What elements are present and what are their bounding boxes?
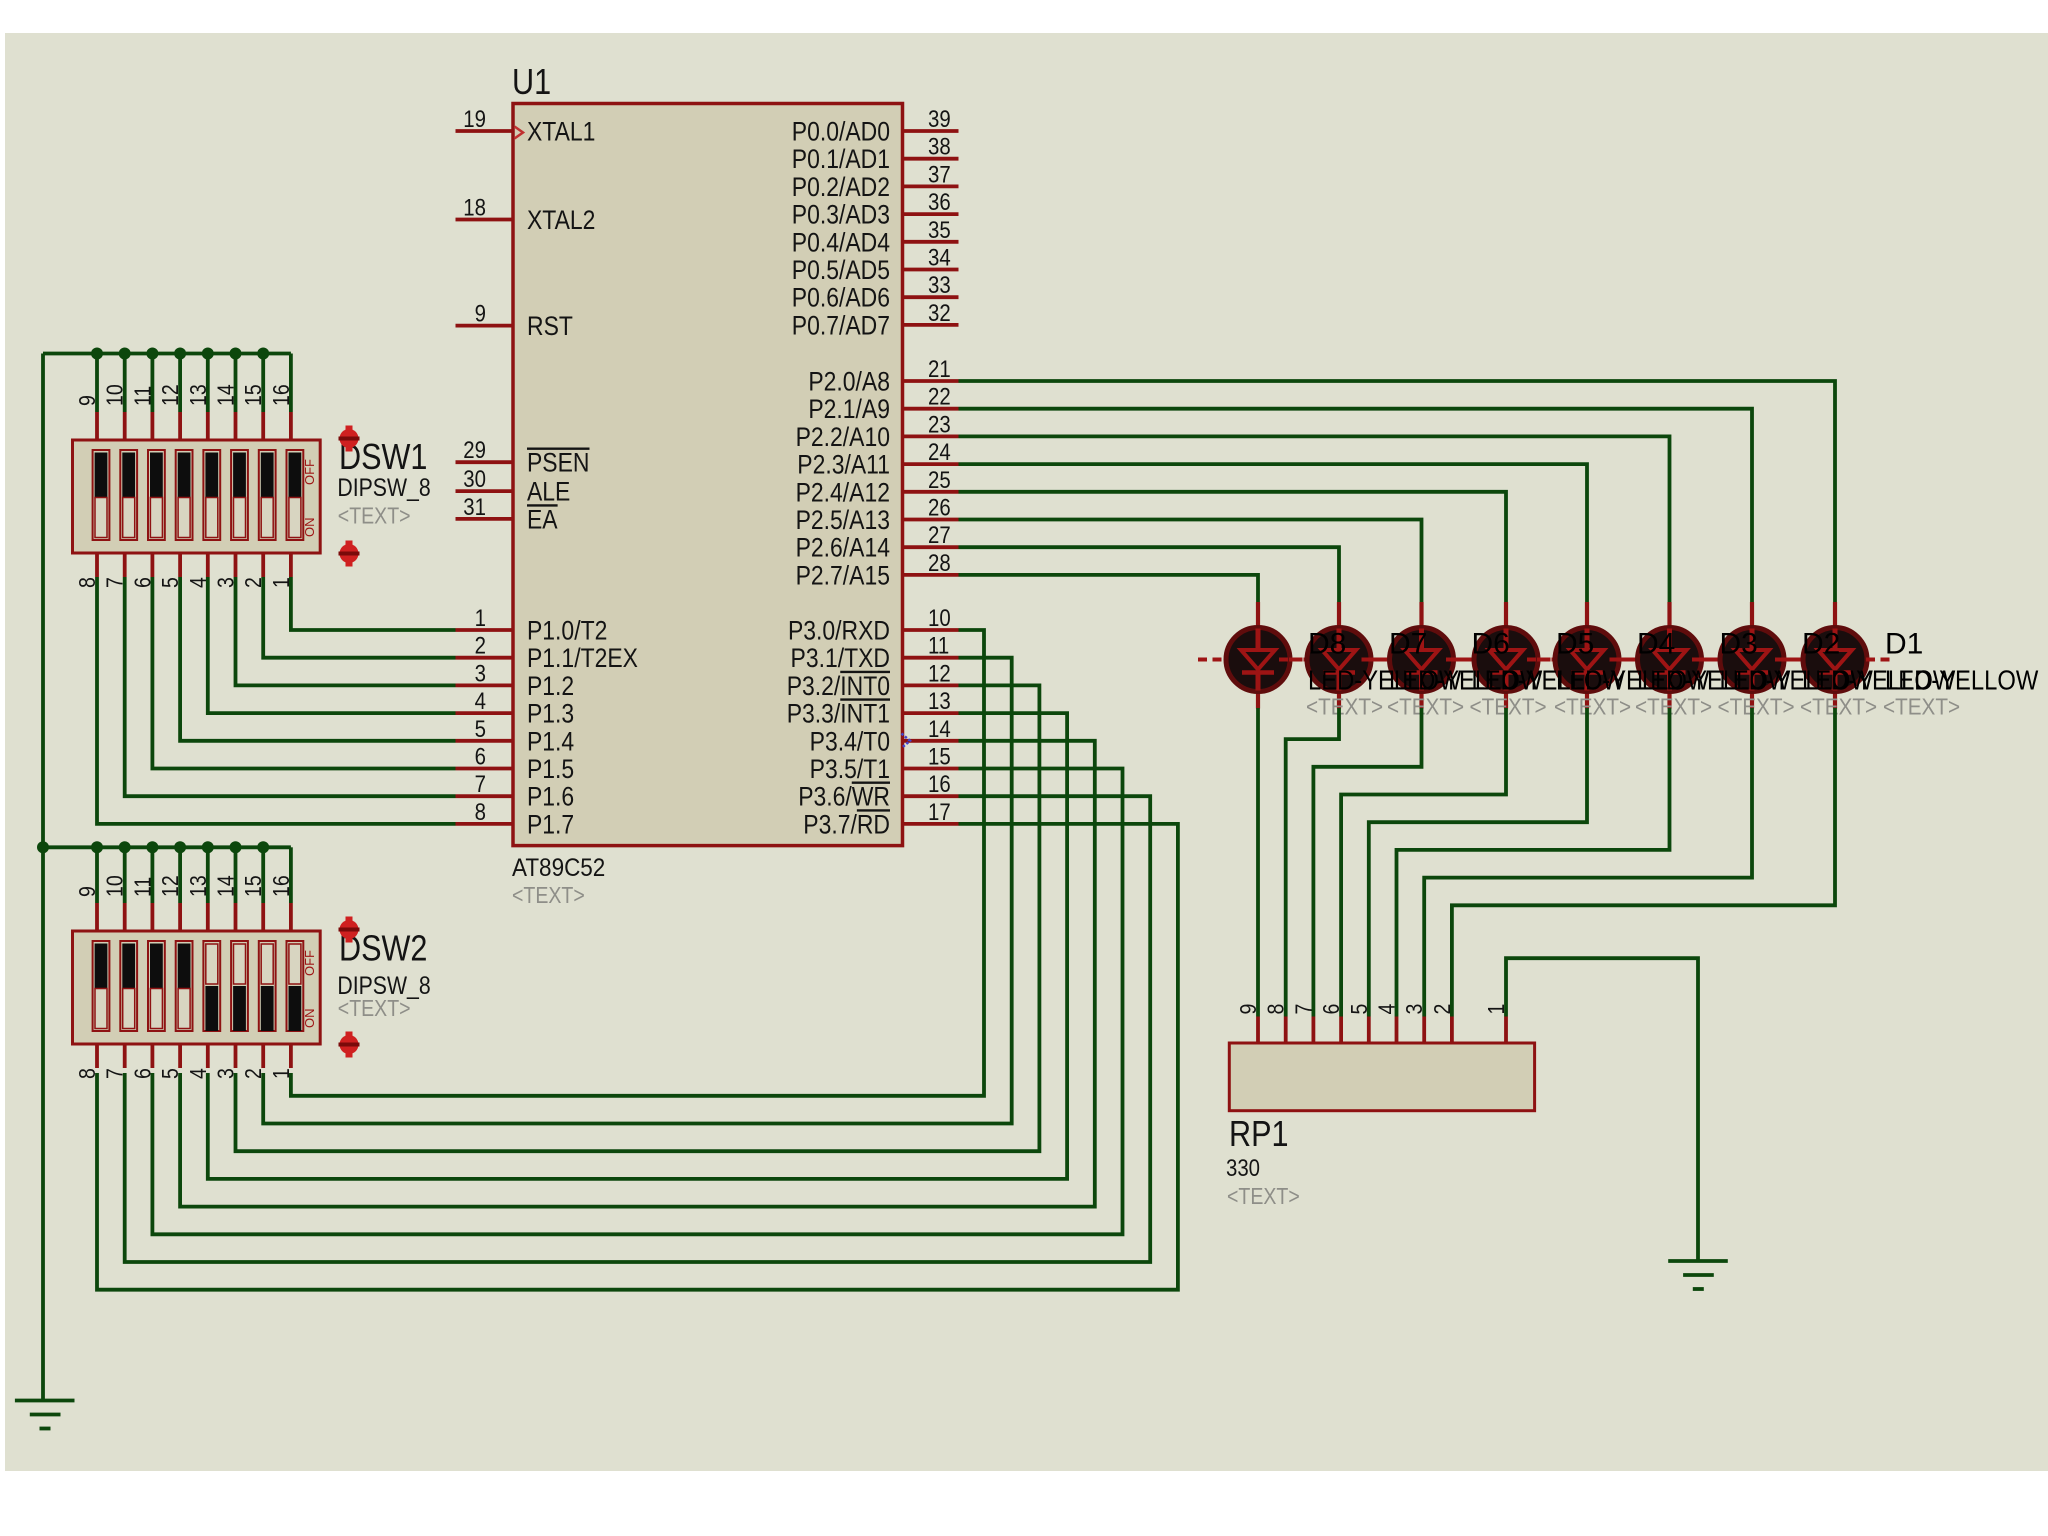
DSW1 pin 16 stub [289, 412, 293, 440]
junction DSW1 bus node 13 [202, 348, 214, 360]
svg-text:P1.4: P1.4 [527, 727, 574, 757]
wire DSW2 pin 4 to U1 P3.3 [208, 713, 1067, 1179]
svg-text:D5: D5 [1556, 628, 1594, 661]
DSW2 origin marker (bottom) [339, 1032, 360, 1058]
U1 pin 28 stub (P2.7) [903, 573, 959, 577]
U1 pin 16 stub (P3.6) [903, 794, 959, 798]
wire DSW1 top pin 11 drop [150, 354, 154, 413]
RP1 pin 9 stub [1256, 1017, 1260, 1044]
svg-text:OFF: OFF [302, 950, 317, 976]
svg-text:14: 14 [928, 715, 951, 742]
svg-text:14: 14 [213, 875, 239, 897]
LED D4 (yellow LED symbol) [1527, 602, 1647, 709]
U1 pin 3 stub (P1.2) [456, 684, 514, 688]
LED D7 (yellow LED symbol) [1279, 602, 1399, 709]
wire DSW1 pin 8 to U1 P1.7 [97, 577, 456, 824]
svg-text:8: 8 [1263, 1004, 1289, 1015]
DSW1 pin 15 stub [261, 412, 265, 440]
DSW2 pin 4 stub (bottom) [206, 1044, 210, 1068]
svg-text:P0.6/AD6: P0.6/AD6 [792, 283, 890, 313]
svg-text:P0.1/AD1: P0.1/AD1 [792, 144, 890, 174]
svg-text:<TEXT>: <TEXT> [1306, 693, 1383, 719]
wire DSW2 top pin 15 drop [261, 847, 265, 903]
DSW2 pin 2 stub (bottom) [261, 1044, 265, 1068]
wire U1 P2.0 to LED D1 anode [959, 381, 1836, 602]
svg-text:PSEN: PSEN [527, 448, 589, 478]
DSW2 switch element 1 (ON) [93, 941, 110, 1031]
wire DSW1 top pin 16 drop [289, 354, 293, 413]
svg-text:<TEXT>: <TEXT> [338, 503, 411, 529]
DSW1 pin 2 stub (bottom) [261, 553, 265, 577]
DSW1 switch element 7 (ON) [259, 450, 276, 540]
wire LED D4 cathode to RP1 pin 5 [1369, 708, 1587, 1017]
IC U1 body (AT89C52 microcontroller) [513, 104, 903, 846]
svg-text:P1.7: P1.7 [527, 810, 574, 840]
DSW1 switch element 2 (ON) [120, 450, 137, 540]
svg-text:P3.2/INT0: P3.2/INT0 [787, 671, 890, 701]
junction DSW2 bus node 15 [257, 841, 269, 853]
svg-text:36: 36 [928, 189, 951, 216]
junction DSW1 bus node 12 [174, 348, 186, 360]
svg-text:8: 8 [475, 798, 486, 825]
svg-text:10: 10 [102, 875, 128, 897]
DSW2 switch element 3 (ON) [148, 941, 165, 1031]
svg-text:21: 21 [928, 355, 951, 382]
wire DSW2 top bus [43, 845, 291, 849]
wire DSW2 top pin 9 drop [95, 847, 99, 903]
svg-text:13: 13 [185, 384, 211, 406]
junction DSW1 bus node 11 [146, 348, 158, 360]
U1 left pin 9 stub [456, 324, 514, 328]
DSW2 pin 1 stub (bottom) [289, 1044, 293, 1068]
svg-text:2: 2 [475, 632, 486, 659]
DSW2 pin 14 stub [234, 903, 238, 931]
svg-text:P1.0/T2: P1.0/T2 [527, 616, 607, 646]
DSW1 switch element 5 (ON) [203, 450, 220, 540]
DSW2 pin 6 stub (bottom) [150, 1044, 154, 1068]
DSW1 pin 9 stub [95, 412, 99, 440]
U1 left pin 19 stub [456, 129, 514, 133]
U1 pin 22 stub (P2.1) [903, 407, 959, 411]
wire DSW1 top pin 10 drop [123, 354, 127, 413]
svg-text:P2.4/A12: P2.4/A12 [796, 478, 890, 508]
DSW1 origin marker (top) [339, 426, 360, 452]
svg-text:AT89C52: AT89C52 [512, 854, 605, 882]
RP1 pin 1 stub [1504, 1017, 1508, 1044]
wire DSW2 top pin 10 drop [123, 847, 127, 903]
svg-text:P3.3/INT1: P3.3/INT1 [787, 699, 890, 729]
svg-text:D8: D8 [1308, 628, 1346, 661]
svg-text:P0.3/AD3: P0.3/AD3 [792, 200, 890, 230]
junction DSW2 bus node 12 [174, 841, 186, 853]
RP1 pin 5 stub [1367, 1017, 1371, 1044]
DSW1 pin 12 stub [178, 412, 182, 440]
DSW2 pin 13 stub [206, 903, 210, 931]
wire U1 P2.2 to LED D3 anode [959, 436, 1670, 602]
wire DSW1 pin 6 to U1 P1.5 [152, 577, 455, 769]
svg-text:XTAL2: XTAL2 [527, 205, 595, 235]
U1 pin 23 stub (P2.2) [903, 434, 959, 438]
wire LED D1 cathode to RP1 pin 2 [1452, 708, 1835, 1017]
svg-text:16: 16 [928, 771, 951, 798]
svg-text:P3.4/T0: P3.4/T0 [810, 727, 890, 757]
DSW2 switch element 5 (OFF) [203, 941, 220, 1031]
dip switch DSW1 body [73, 440, 321, 553]
svg-text:DIPSW_8: DIPSW_8 [337, 473, 430, 501]
svg-text:<TEXT>: <TEXT> [1635, 693, 1712, 719]
svg-text:9: 9 [75, 886, 101, 897]
svg-text:13: 13 [185, 875, 211, 897]
dip switch DSW2 body [73, 931, 321, 1044]
DSW2 pin 10 stub [123, 903, 127, 931]
svg-text:330: 330 [1226, 1154, 1260, 1181]
svg-text:P2.1/A9: P2.1/A9 [808, 394, 890, 424]
DSW1 switch element 8 (ON) [287, 450, 304, 540]
junction DSW2 bus node 14 [230, 841, 242, 853]
svg-text:P2.7/A15: P2.7/A15 [796, 561, 890, 591]
DSW2 switch element 2 (ON) [120, 941, 137, 1031]
U1 pin 38 stub (P0.1) [903, 157, 959, 161]
svg-text:<TEXT>: <TEXT> [338, 996, 411, 1022]
svg-text:P1.1/T2EX: P1.1/T2EX [527, 643, 638, 673]
RP1 pin 4 stub [1395, 1017, 1399, 1044]
svg-text:26: 26 [928, 494, 951, 521]
wire U1 P2.7 to LED D8 anode [959, 575, 1259, 602]
svg-text:16: 16 [268, 384, 294, 406]
junction DSW1 bus node 10 [119, 348, 131, 360]
svg-text:9: 9 [75, 395, 101, 406]
U1 pin 26 stub (P2.5) [903, 518, 959, 522]
svg-text:5: 5 [475, 715, 486, 742]
svg-text:12: 12 [928, 660, 951, 687]
RP1 pin 8 stub [1284, 1017, 1288, 1044]
U1 pin 13 stub (P3.3) [903, 711, 959, 715]
DSW1 pin 7 stub (bottom) [123, 553, 127, 577]
svg-text:P0.5/AD5: P0.5/AD5 [792, 255, 890, 285]
U1 pin 10 stub (P3.0) [903, 628, 959, 632]
svg-text:6: 6 [1319, 1004, 1345, 1015]
svg-text:<TEXT>: <TEXT> [1554, 693, 1631, 719]
wire DSW2 top pin 12 drop [178, 847, 182, 903]
DSW2 origin marker (top) [339, 917, 360, 943]
DSW2 pin 16 stub [289, 903, 293, 931]
wire U1 P2.5 to LED D6 anode [959, 520, 1422, 603]
U1 pin 7 stub (P1.6) [456, 794, 514, 798]
junction DSW2 bus node 10 [119, 841, 131, 853]
svg-text:D3: D3 [1720, 628, 1758, 661]
wire DSW1 top pin 9 drop [95, 354, 99, 413]
svg-text:3: 3 [475, 660, 486, 687]
U1 left pin 31 stub [456, 517, 514, 521]
svg-text:7: 7 [1291, 1004, 1317, 1015]
resistor pack RP1 body [1229, 1043, 1534, 1111]
RP1 pin 7 stub [1312, 1017, 1316, 1044]
svg-text:3: 3 [1402, 1004, 1428, 1015]
wire DSW2 pin 5 to U1 P3.4 [180, 741, 1095, 1207]
U1 pin 37 stub (P0.2) [903, 184, 959, 188]
svg-text:OFF: OFF [302, 459, 317, 485]
svg-text:12: 12 [158, 875, 184, 897]
DSW2 pin 8 stub (bottom) [95, 1044, 99, 1068]
svg-text:D1: D1 [1885, 628, 1923, 661]
wire DSW1 pin 1 to U1 P1.0 [291, 577, 456, 630]
svg-text:9: 9 [1236, 1004, 1262, 1015]
svg-text:P0.0/AD0: P0.0/AD0 [792, 117, 890, 147]
U1 pin 12 stub (P3.2) [903, 684, 959, 688]
wire LED D6 cathode to RP1 pin 7 [1313, 708, 1421, 1017]
svg-text:<TEXT>: <TEXT> [512, 883, 585, 909]
svg-text:ALE: ALE [527, 477, 570, 507]
svg-text:<TEXT>: <TEXT> [1883, 693, 1960, 719]
wire DSW2 top pin 11 drop [150, 847, 154, 903]
wire DSW1 top pin 13 drop [206, 354, 210, 413]
U1 pin 32 stub (P0.7) [903, 323, 959, 327]
svg-text:P2.5/A13: P2.5/A13 [796, 505, 890, 535]
U1 pin 21 stub (P2.0) [903, 379, 959, 383]
wire LED D5 cathode to RP1 pin 6 [1341, 708, 1506, 1017]
svg-text:P2.6/A14: P2.6/A14 [796, 533, 890, 563]
DSW1 pin 6 stub (bottom) [150, 553, 154, 577]
svg-text:P3.0/RXD: P3.0/RXD [788, 616, 890, 646]
RP1 pin 2 stub [1450, 1017, 1454, 1044]
junction DSW2 bus node 13 [202, 841, 214, 853]
wire ground rail vertical (left) [41, 354, 45, 1401]
wire DSW2 top pin 13 drop [206, 847, 210, 903]
DSW2 pin 11 stub [150, 903, 154, 931]
svg-text:<TEXT>: <TEXT> [1227, 1184, 1300, 1210]
svg-text:D6: D6 [1472, 628, 1510, 661]
svg-text:15: 15 [928, 743, 951, 770]
svg-text:1: 1 [475, 604, 486, 631]
svg-text:15: 15 [241, 384, 267, 406]
svg-text:38: 38 [928, 133, 951, 160]
DSW2 switch element 7 (OFF) [259, 941, 276, 1031]
wire DSW1 pin 4 to U1 P1.3 [208, 577, 456, 713]
svg-text:P2.0/A8: P2.0/A8 [808, 367, 890, 397]
DSW1 origin marker (bottom) [339, 541, 360, 567]
U1 pin 36 stub (P0.3) [903, 212, 959, 216]
U1 pin 33 stub (P0.6) [903, 295, 959, 299]
svg-text:28: 28 [928, 549, 951, 576]
wire DSW1 pin 3 to U1 P1.2 [236, 577, 456, 685]
svg-text:14: 14 [213, 384, 239, 406]
svg-text:39: 39 [928, 105, 951, 132]
DSW2 pin 7 stub (bottom) [123, 1044, 127, 1068]
RP1 pin 6 stub [1339, 1017, 1343, 1044]
U1 pin 24 stub (P2.3) [903, 462, 959, 466]
svg-text:11: 11 [130, 386, 156, 406]
svg-text:4: 4 [1374, 1004, 1400, 1015]
svg-text:30: 30 [463, 466, 486, 493]
svg-text:P1.5: P1.5 [527, 754, 574, 784]
svg-text:23: 23 [928, 411, 951, 438]
svg-text:10: 10 [928, 604, 951, 631]
svg-text:33: 33 [928, 272, 951, 299]
DSW1 pin 14 stub [234, 412, 238, 440]
LED D3 (yellow LED symbol) [1610, 602, 1730, 709]
svg-text:37: 37 [928, 161, 951, 188]
wire LED D3 cathode to RP1 pin 4 [1397, 708, 1670, 1017]
svg-text:<TEXT>: <TEXT> [1800, 693, 1877, 719]
svg-text:6: 6 [475, 743, 486, 770]
junction DSW1 bus node 14 [230, 348, 242, 360]
DSW2 pin 9 stub [95, 903, 99, 931]
svg-text:2: 2 [1429, 1004, 1455, 1015]
svg-text:22: 22 [928, 383, 951, 410]
svg-text:P0.4/AD4: P0.4/AD4 [792, 228, 890, 258]
wire DSW2 pin 1 to U1 P3.0 [291, 630, 984, 1096]
DSW1 pin 11 stub [150, 412, 154, 440]
svg-text:P3.5/T1: P3.5/T1 [810, 754, 890, 784]
DSW1 pin 1 stub (bottom) [289, 553, 293, 577]
svg-text:15: 15 [241, 875, 267, 897]
svg-text:11: 11 [130, 877, 156, 897]
svg-text:29: 29 [463, 437, 486, 464]
wire DSW2 top pin 14 drop [234, 847, 238, 903]
junction DSW1 bus node 15 [257, 348, 269, 360]
DSW1 pin 3 stub (bottom) [234, 553, 238, 577]
svg-text:7: 7 [475, 771, 486, 798]
svg-text:24: 24 [928, 439, 951, 466]
U1 pin 17 stub (P3.7) [903, 822, 959, 826]
wire DSW2 pin 8 to U1 P3.7 [97, 824, 1178, 1290]
U1 pin 5 stub (P1.4) [456, 739, 514, 743]
svg-text:EA: EA [527, 505, 558, 535]
DSW1 switch element 1 (ON) [93, 450, 110, 540]
U1 pin 2 stub (P1.1) [456, 656, 514, 660]
junction DSW2 bus to ground rail [37, 841, 49, 853]
ground symbol (bottom right) [1668, 1259, 1728, 1263]
LED D8 (yellow LED symbol) [1198, 602, 1318, 709]
svg-text:16: 16 [268, 875, 294, 897]
DSW2 pin 3 stub (bottom) [234, 1044, 238, 1068]
svg-text:D7: D7 [1389, 628, 1427, 661]
DSW1 switch element 3 (ON) [148, 450, 165, 540]
svg-text:LED-YELLOW: LED-YELLOW [1885, 664, 2039, 696]
svg-text:4: 4 [475, 688, 486, 715]
wire LED D2 cathode to RP1 pin 3 [1424, 708, 1752, 1017]
svg-text:D2: D2 [1802, 628, 1840, 661]
wire RP1 pin 1 to ground [1506, 958, 1698, 1261]
wire DSW2 pin 7 to U1 P3.6 [125, 796, 1151, 1262]
wire DSW1 top pin 15 drop [261, 354, 265, 413]
svg-text:12: 12 [158, 384, 184, 406]
U1 clock chevron on XTAL1 [515, 127, 524, 139]
DSW2 switch element 6 (OFF) [231, 941, 248, 1031]
svg-text:P0.7/AD7: P0.7/AD7 [792, 311, 890, 341]
wire DSW1 top bus [43, 352, 291, 356]
U1 left pin 18 stub [456, 218, 514, 222]
svg-text:P1.6: P1.6 [527, 782, 574, 812]
svg-text:P1.2: P1.2 [527, 671, 574, 701]
wire DSW2 pin 2 to U1 P3.1 [263, 658, 1012, 1124]
svg-text:11: 11 [928, 632, 949, 659]
DSW1 pin 4 stub (bottom) [206, 553, 210, 577]
DSW1 pin 13 stub [206, 412, 210, 440]
svg-text:<TEXT>: <TEXT> [1718, 693, 1795, 719]
svg-text:19: 19 [463, 105, 486, 132]
svg-text:D4: D4 [1637, 628, 1675, 661]
svg-text:U1: U1 [512, 63, 551, 103]
U1 pin 8 stub (P1.7) [456, 822, 514, 826]
junction DSW1 bus node 9 [91, 348, 103, 360]
svg-text:P3.6/WR: P3.6/WR [798, 782, 890, 812]
wire DSW2 pin 3 to U1 P3.2 [236, 685, 1040, 1151]
DSW2 pin 12 stub [178, 903, 182, 931]
U1 pin 15 stub (P3.5) [903, 767, 959, 771]
U1 left pin 29 stub [456, 460, 514, 464]
LED D2 (yellow LED symbol) [1692, 602, 1812, 709]
wire DSW1 pin 2 to U1 P1.1 [263, 577, 455, 658]
U1 pin 27 stub (P2.6) [903, 545, 959, 549]
svg-text:25: 25 [928, 466, 951, 493]
svg-text:27: 27 [928, 522, 951, 549]
svg-text:P2.2/A10: P2.2/A10 [796, 422, 890, 452]
U1 clock chevron on P3.4/T0 (blue) [902, 734, 911, 749]
svg-text:5: 5 [1346, 1004, 1372, 1015]
U1 pin 4 stub (P1.3) [456, 711, 514, 715]
svg-text:RST: RST [527, 311, 573, 341]
wire DSW1 pin 5 to U1 P1.4 [180, 577, 455, 741]
wire DSW2 pin 6 to U1 P3.5 [152, 769, 1122, 1235]
svg-text:P3.7/RD: P3.7/RD [803, 810, 890, 840]
LED D6 (yellow LED symbol) [1362, 602, 1482, 709]
DSW1 switch element 6 (ON) [231, 450, 248, 540]
wire U1 P2.4 to LED D5 anode [959, 492, 1507, 602]
U1 pin 39 stub (P0.0) [903, 129, 959, 133]
svg-text:P0.2/AD2: P0.2/AD2 [792, 172, 890, 202]
wire DSW2 top pin 16 drop [289, 847, 293, 903]
svg-text:P1.3: P1.3 [527, 699, 574, 729]
svg-text:ON: ON [302, 1009, 317, 1029]
junction DSW2 bus node 11 [146, 841, 158, 853]
svg-text:32: 32 [928, 299, 951, 326]
LED D5 (yellow LED symbol) [1446, 602, 1566, 709]
DSW1 pin 10 stub [123, 412, 127, 440]
U1 pin 34 stub (P0.5) [903, 268, 959, 272]
DSW2 switch element 8 (OFF) [287, 941, 304, 1031]
wire DSW1 top pin 12 drop [178, 354, 182, 413]
U1 pin 14 stub (P3.4) [903, 739, 959, 743]
wire DSW1 pin 7 to U1 P1.6 [125, 577, 456, 796]
U1 pin 11 stub (P3.1) [903, 656, 959, 660]
U1 left pin 30 stub [456, 489, 514, 493]
DSW1 pin 5 stub (bottom) [178, 553, 182, 577]
svg-text:<TEXT>: <TEXT> [1470, 693, 1547, 719]
U1 pin 35 stub (P0.4) [903, 240, 959, 244]
svg-text:10: 10 [102, 384, 128, 406]
ground symbol (bottom left) [15, 1399, 75, 1403]
wire U1 P2.1 to LED D2 anode [959, 409, 1753, 602]
LED D1 (yellow LED symbol) [1775, 602, 1895, 709]
DSW1 pin 8 stub (bottom) [95, 553, 99, 577]
U1 pin 6 stub (P1.5) [456, 767, 514, 771]
svg-text:XTAL1: XTAL1 [527, 117, 595, 147]
junction DSW2 bus node 9 [91, 841, 103, 853]
svg-text:RP1: RP1 [1229, 1115, 1289, 1155]
svg-text:18: 18 [463, 194, 486, 221]
RP1 pin 3 stub [1422, 1017, 1426, 1044]
svg-text:<TEXT>: <TEXT> [1387, 693, 1464, 719]
wire DSW1 top pin 14 drop [234, 354, 238, 413]
svg-text:35: 35 [928, 216, 951, 243]
svg-text:31: 31 [463, 493, 486, 520]
wire U1 P2.6 to LED D7 anode [959, 547, 1340, 602]
U1 pin 25 stub (P2.4) [903, 490, 959, 494]
wire LED D8 cathode to RP1 pin 9 [1256, 708, 1260, 1017]
U1 pin 1 stub (P1.0) [456, 628, 514, 632]
wire LED D7 cathode to RP1 pin 8 [1286, 708, 1339, 1017]
